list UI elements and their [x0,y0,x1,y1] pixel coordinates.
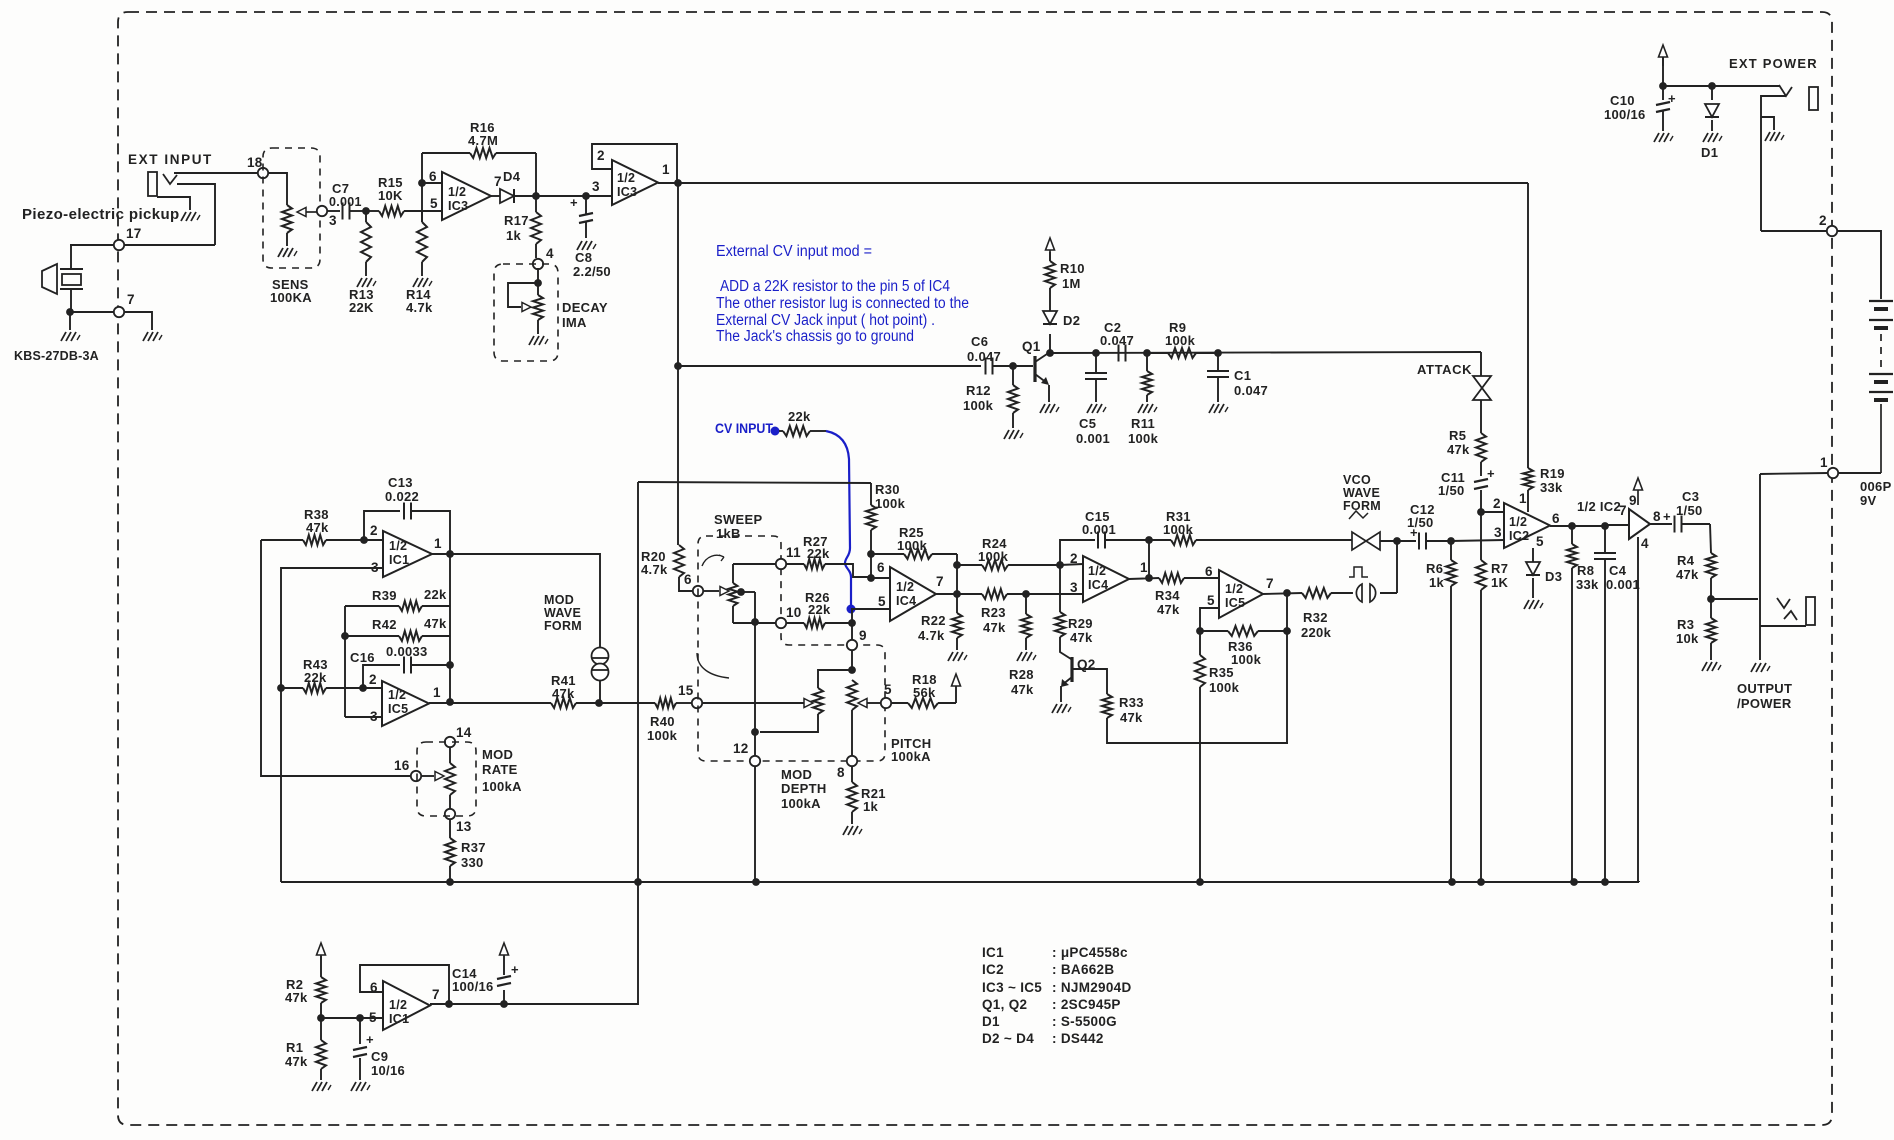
svg-text:ATTACK: ATTACK [1417,362,1472,377]
node 12 [750,756,760,766]
wiper MOD RATE [421,775,434,777]
piezo transducer KBS-27DB-3A [42,264,57,294]
resistor 22k CV [779,430,783,432]
svg-text:9: 9 [1629,493,1637,508]
node 4 [533,259,543,269]
svg-text:17: 17 [126,226,142,241]
svg-text:External CV input mod =: External CV input mod = [716,243,872,260]
wire [702,702,800,704]
ground [61,332,66,341]
svg-text:FORM: FORM [1343,499,1381,513]
svg-text:+: + [1410,525,1418,540]
wire pin6 riser [421,153,423,222]
op-amp IC3 second half [612,160,658,205]
svg-text:7: 7 [494,174,502,189]
wire pin2 [1481,511,1504,513]
node 14 [445,737,455,747]
node [751,618,759,626]
svg-text:R30: R30 [875,482,900,497]
pot DECAY IMA [537,268,539,283]
wire [638,482,871,483]
resistor R4 47k [1710,524,1711,553]
svg-text:/POWER: /POWER [1737,696,1792,711]
svg-text:The other resistor lug is conn: The other resistor lug is connected to t… [716,295,969,312]
wire [432,553,450,555]
svg-text:DEPTH: DEPTH [781,781,827,796]
svg-text:IC3: IC3 [448,199,468,213]
svg-text:5: 5 [878,594,886,609]
svg-text:8: 8 [837,765,845,780]
svg-text:1kB: 1kB [716,526,741,541]
battery 006P 9V [1869,300,1893,302]
svg-text:External CV Jack input ( hot p: External CV Jack input ( hot point) . [716,312,935,329]
svg-text:3: 3 [1494,525,1502,540]
svg-text:0.047: 0.047 [967,349,1001,364]
capacitor C1 0.047 [1217,353,1219,371]
svg-text:2.2/50: 2.2/50 [573,264,611,279]
power arrow [1634,478,1643,490]
node CV to pin5 [847,605,856,614]
svg-text:R28: R28 [1009,667,1034,682]
svg-text:D1: D1 [1701,145,1718,160]
resistor R9 100k [1147,352,1168,354]
node [1056,561,1064,569]
svg-text:47k: 47k [306,520,329,535]
capacitor C7 0.001 [342,203,344,220]
wire [174,172,258,174]
square glyph [1349,567,1368,577]
svg-text:MOD: MOD [482,747,513,762]
resistor R29 47k [1059,565,1061,612]
resistor R16 4.7M [422,152,470,154]
capacitor C6 0.047 [985,358,987,375]
svg-text:100k: 100k [1128,431,1159,446]
node [317,1014,325,1022]
wire [1837,231,1881,299]
svg-text:IC5: IC5 [388,702,408,716]
wire [1148,540,1150,577]
node [953,561,961,569]
svg-text:4.7k: 4.7k [406,300,433,315]
wire [1396,540,1398,593]
wire [430,1003,504,1005]
wire [449,606,451,702]
svg-text:0.047: 0.047 [1100,333,1134,348]
svg-text:47k: 47k [983,620,1006,635]
ground [529,336,534,345]
resistor R38 47k [261,539,303,541]
wire pin6 [422,182,442,184]
node [446,878,454,886]
svg-text:1K: 1K [1491,575,1509,590]
node 2 [1827,226,1837,236]
ground [1209,404,1214,413]
svg-text:6: 6 [429,169,437,184]
svg-text:330: 330 [461,855,484,870]
ground [1703,133,1708,142]
wire [956,565,958,594]
wire [658,182,678,184]
svg-text:2: 2 [1070,551,1078,566]
svg-text:100k: 100k [1163,522,1194,537]
wire [70,244,114,246]
ground [1765,132,1770,141]
ground [312,1082,317,1091]
node [1145,536,1153,544]
node [1448,878,1456,886]
svg-text:16: 16 [394,758,410,773]
svg-text:Q1: Q1 [1022,339,1041,354]
ground [1017,652,1022,661]
svg-text:4.7k: 4.7k [641,562,668,577]
op-amp IC2 second half [1629,509,1650,539]
node 1 [1828,468,1838,478]
wire [936,593,982,595]
wire [124,244,215,246]
svg-text:D4: D4 [503,169,521,184]
node [1196,878,1204,886]
resistor R5 47k [1476,433,1486,462]
svg-text:100k: 100k [978,549,1009,564]
svg-text:1: 1 [1140,560,1148,575]
node piezo-gnd [66,308,74,316]
wire [1050,352,1481,353]
svg-text:5: 5 [430,196,438,211]
svg-text:6: 6 [877,560,885,575]
svg-text:Piezo-electric pickup: Piezo-electric pickup [22,206,180,223]
svg-text:22k: 22k [304,670,327,685]
svg-text:SWEEP: SWEEP [714,512,762,527]
svg-text:100k: 100k [875,496,906,511]
svg-text:47k: 47k [1070,630,1093,645]
jack EXT INPUT [148,172,157,196]
node [1143,349,1151,357]
resistor R27 22k [786,563,804,565]
svg-text:R35: R35 [1209,665,1234,680]
svg-text:R37: R37 [461,840,486,855]
node [1570,878,1578,886]
ground [1524,600,1529,609]
svg-text:0.0033: 0.0033 [386,644,428,659]
svg-text:22K: 22K [349,300,374,315]
svg-text:1/2 IC2: 1/2 IC2 [1577,499,1621,514]
resistor R26 22k [786,622,804,624]
resistor R31 100k [1149,539,1171,541]
resistor R40 100k [638,702,655,704]
svg-text:1/2: 1/2 [1088,564,1106,578]
wire [515,195,600,197]
svg-text:: BA662B: : BA662B [1052,962,1114,977]
svg-text:47k: 47k [1157,602,1180,617]
resistor R15 10K [366,210,379,212]
svg-text:7: 7 [432,987,440,1002]
ground [143,332,148,341]
node [1022,590,1030,598]
svg-text:1/2: 1/2 [617,171,635,185]
wire [268,173,287,199]
svg-text:: DS442: : DS442 [1052,1031,1104,1046]
node [1009,362,1017,370]
svg-text:47k: 47k [285,990,308,1005]
wire [364,539,383,541]
ground [948,652,953,661]
svg-text:R4: R4 [1677,553,1695,568]
svg-text:2: 2 [370,523,378,538]
jack OUTPUT/POWER [1759,474,1761,660]
power arrow [500,943,509,955]
svg-text:7: 7 [936,574,944,589]
svg-text:0.001: 0.001 [1082,522,1116,537]
svg-text:R8: R8 [1577,563,1594,578]
vco selector bowtie [1352,532,1366,550]
wire [1761,230,1827,232]
wire bottom bus [281,881,1639,883]
node [751,728,759,736]
svg-text:1/2: 1/2 [896,580,914,594]
op-amp IC4 second half [1083,556,1129,602]
wire [1129,578,1159,579]
svg-text:C3: C3 [1682,489,1699,504]
ground [357,278,362,287]
wire [679,577,693,591]
capacitor C4 0.001 [1604,526,1606,553]
svg-text:3: 3 [329,213,337,228]
svg-text:EXT INPUT: EXT INPUT [128,152,213,167]
resistor R18 56k [891,702,908,704]
curve glyph [697,653,729,678]
node 17 [114,240,124,250]
svg-text:47k: 47k [1447,442,1470,457]
svg-text:6: 6 [684,572,692,587]
svg-text:: S-5500G: : S-5500G [1052,1014,1117,1029]
svg-text:47k: 47k [1120,710,1143,725]
resistor R30 100k [870,483,872,505]
wire [851,609,853,640]
wire pin3 IC1a [281,568,383,882]
wire [261,540,411,776]
svg-text:R22: R22 [921,613,946,628]
svg-text:6: 6 [1552,511,1560,526]
wire pin5 IC4a [851,608,890,610]
svg-text:C13: C13 [388,475,413,490]
svg-text:R10: R10 [1060,261,1085,276]
svg-text:100/16: 100/16 [452,979,494,994]
svg-text:C8: C8 [575,250,592,265]
ground [577,241,582,250]
ground [181,212,186,221]
svg-text:1/2: 1/2 [389,998,407,1012]
ground [351,1082,356,1091]
svg-text:47k: 47k [1676,567,1699,582]
diode D4 [500,189,514,203]
wire [1451,540,1504,541]
resistor R35 100k [1195,655,1205,687]
svg-text:4.7M: 4.7M [468,133,498,148]
svg-text:: 2SC945P: : 2SC945P [1052,997,1121,1012]
diode D3 [1532,548,1534,562]
svg-text:5: 5 [1207,593,1215,608]
wire pin2 IC4b [1060,564,1083,565]
resistor R10 1M [1049,252,1051,261]
svg-text:R32: R32 [1303,610,1328,625]
svg-text:+: + [570,195,578,210]
node pin3 IC3b [582,192,590,200]
svg-text:MOD: MOD [544,593,574,607]
resistor R43 22k [281,687,303,689]
wire [1286,593,1288,631]
svg-text:1: 1 [434,536,442,551]
svg-text:R39: R39 [372,588,397,603]
wire [535,153,537,196]
svg-text:C7: C7 [332,181,349,196]
svg-text:7: 7 [127,292,135,307]
wire [1711,598,1758,600]
node [1601,878,1609,886]
svg-text:33k: 33k [1540,480,1563,495]
svg-text:R34: R34 [1155,588,1180,603]
node [634,878,642,886]
svg-text:5: 5 [369,1010,377,1025]
svg-text:R6: R6 [1426,561,1443,576]
svg-text:The Jack's chassis go to groun: The Jack's chassis go to ground [716,328,914,345]
svg-text:4: 4 [1641,536,1649,551]
wire [321,1017,382,1019]
op-amp IC2 first half [1504,503,1550,548]
svg-text:1/2: 1/2 [1509,515,1527,529]
svg-text:IC2: IC2 [982,962,1004,977]
node [867,550,875,558]
box MOD RATE [417,742,476,816]
capacitor C12 1/50 [1397,540,1416,542]
svg-text:9: 9 [859,628,867,643]
node 10 [776,618,786,628]
svg-text:D1: D1 [982,1014,1000,1029]
wire [1662,57,1664,100]
svg-text:4: 4 [546,246,554,261]
svg-text:6: 6 [1205,564,1213,579]
wire [429,702,450,704]
resistor R32 220k [1302,588,1331,598]
svg-text:4.7k: 4.7k [918,628,945,643]
svg-text:KBS-27DB-3A: KBS-27DB-3A [14,349,99,363]
svg-text:7: 7 [1619,503,1627,518]
svg-text:D3: D3 [1545,569,1562,584]
svg-text:100KA: 100KA [270,290,312,305]
svg-text:R5: R5 [1449,428,1466,443]
wire [754,766,756,882]
wire main top rail [678,182,1528,184]
wire [1663,85,1779,87]
pot MOD DEPTH 100kA [813,688,823,714]
ground [1751,663,1756,672]
resistor R25 100k [871,553,904,555]
node [752,878,760,886]
resistor R12 100k [1012,366,1014,385]
node [595,699,603,707]
svg-text:CV INPUT: CV INPUT [715,421,774,436]
wire [599,702,650,704]
svg-text:C9: C9 [371,1049,388,1064]
svg-text:47k: 47k [424,616,447,631]
box SWEEP-PITCH [698,536,885,761]
node 7 [114,307,124,317]
wire [363,687,382,689]
svg-text:R11: R11 [1131,416,1155,431]
wire [956,554,958,565]
svg-text:47k: 47k [1011,682,1034,697]
svg-text:R7: R7 [1491,561,1508,576]
node [1196,627,1204,635]
wire [955,686,957,703]
transistor Q2 [1060,637,1071,659]
svg-text:VCO: VCO [1343,473,1371,487]
resistor R24 100k [957,564,982,566]
svg-text:C16: C16 [350,650,375,665]
wire pin3 [591,195,612,197]
svg-text:220k: 220k [1301,625,1332,640]
resistor R6 1k [1450,541,1452,560]
node [1477,878,1485,886]
svg-text:100k: 100k [1165,333,1196,348]
resistor R20 4.7k [674,545,684,577]
node [1447,537,1455,545]
wire [1263,593,1302,594]
node sweep wiper [737,588,745,596]
svg-text:100kA: 100kA [891,749,931,764]
svg-text:22k: 22k [807,546,830,561]
svg-text:IC1: IC1 [389,553,409,567]
capacitor C16 0.0033 [363,665,400,688]
resistor R14 4.7k [421,211,423,222]
node 16 [411,771,421,781]
op-amp IC5 second half [1219,570,1263,618]
pot PITCH 100kA [847,680,857,710]
node [356,1014,364,1022]
wire [1550,525,1607,527]
svg-text:R3: R3 [1677,617,1694,632]
node [446,661,454,669]
mod waveform symbol [592,648,609,665]
svg-text:R17: R17 [504,213,529,228]
svg-text:100kA: 100kA [482,779,522,794]
resistor R42 47k [345,635,399,637]
svg-text:R23: R23 [981,605,1006,620]
resistor R2 47k [320,956,322,977]
pulse symbol [1356,584,1362,602]
node 5 [881,698,891,708]
svg-text:13: 13 [456,819,472,834]
wire [450,554,600,647]
node D4 out [532,192,540,200]
svg-text:IC5: IC5 [1225,596,1245,610]
diode D1 [1711,86,1713,100]
wire [504,482,638,1004]
resistor R41 47k [450,702,551,704]
svg-text:22k: 22k [788,409,811,424]
svg-text:0.001: 0.001 [1606,577,1640,592]
svg-text:R42: R42 [372,617,397,632]
capacitor C10 100/16 [1656,102,1670,105]
node 6 [693,586,703,596]
wire [851,650,853,670]
svg-text:9V: 9V [1860,493,1877,508]
svg-text:IC3: IC3 [617,185,637,199]
svg-text:5: 5 [884,682,892,697]
svg-text:C4: C4 [1609,563,1627,578]
svg-text:1: 1 [433,685,441,700]
svg-text:10/16: 10/16 [371,1063,405,1078]
resistor R28 47k [1025,594,1027,614]
